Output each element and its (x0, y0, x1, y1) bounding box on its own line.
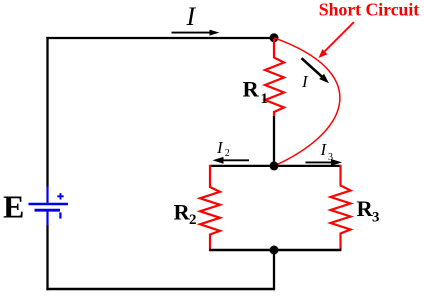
resistor R2 (red zigzag with leads) (200, 165, 220, 251)
svg-text:R: R (357, 196, 374, 221)
wire: bottom horizontal return (46, 288, 275, 290)
current arrow I (top) (172, 30, 220, 36)
svg-text:I: I (216, 138, 224, 157)
short-circuit current arrow I (black, on arc) (302, 58, 330, 83)
node A (top junction) (270, 33, 279, 42)
svg-text:R: R (243, 77, 260, 102)
current arrow I3 (pointing right) (306, 159, 343, 166)
svg-text:2: 2 (189, 212, 197, 228)
svg-text:R: R (174, 199, 191, 224)
svg-text:I: I (301, 72, 309, 91)
svg-text:I: I (320, 140, 328, 159)
wire: middle horizontal rail (209, 165, 341, 167)
svg-text:E: E (3, 188, 24, 224)
node B (middle junction) (270, 161, 279, 170)
svg-text:1: 1 (261, 91, 269, 107)
wire: stub from node C down to bottom return (273, 250, 275, 290)
wire: bottom rail of parallel branch (209, 249, 341, 251)
wire: R1 lower lead (black) to node B (273, 116, 275, 166)
pointer arrow from label to the arc (red) (319, 22, 355, 58)
svg-text:Short Circuit: Short Circuit (319, 0, 420, 20)
resistor R3 (red zigzag with leads) (331, 165, 351, 251)
node C (bottom junction) (270, 246, 279, 255)
current arrow I2 (pointing left) (213, 157, 250, 164)
wire: left vertical below battery (46, 225, 48, 290)
battery E (blue cell symbol) (29, 186, 69, 226)
wire: left vertical (battery branch) (46, 37, 48, 187)
short-circuit arc (red) from node A to node B (274, 38, 340, 166)
svg-text:3: 3 (328, 152, 333, 163)
wire: top horizontal from battery to node A (46, 37, 274, 39)
resistor R1 (red zigzag with leads) (265, 39, 284, 117)
svg-text:3: 3 (372, 210, 380, 226)
svg-text:I: I (186, 2, 197, 31)
svg-text:2: 2 (225, 148, 230, 159)
